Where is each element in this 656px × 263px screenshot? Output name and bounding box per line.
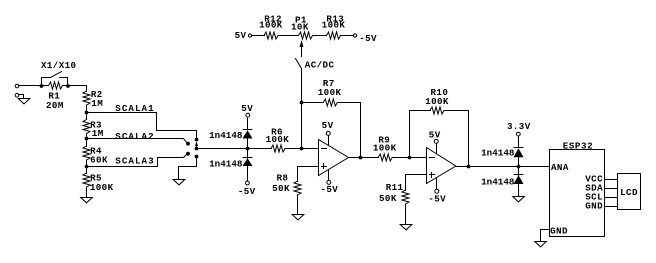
svg-text:100K: 100K — [259, 19, 283, 30]
svg-text:-5V: -5V — [238, 186, 256, 197]
svg-text:1n4148: 1n4148 — [209, 158, 243, 169]
svg-text:1n4148: 1n4148 — [209, 130, 243, 141]
svg-text:100K: 100K — [373, 142, 397, 153]
svg-text:-5V: -5V — [320, 184, 338, 195]
svg-text:R8: R8 — [276, 172, 288, 183]
svg-text:1M: 1M — [92, 128, 104, 139]
svg-text:20M: 20M — [46, 100, 64, 111]
svg-text:100K: 100K — [318, 87, 342, 98]
svg-text:100K: 100K — [90, 182, 114, 193]
svg-text:100K: 100K — [266, 134, 290, 145]
svg-text:100K: 100K — [425, 96, 449, 107]
svg-text:5V: 5V — [322, 120, 334, 131]
svg-text:50K: 50K — [379, 193, 397, 204]
svg-text:5V: 5V — [241, 103, 253, 114]
svg-text:-5V: -5V — [428, 194, 446, 205]
svg-text:50K: 50K — [272, 183, 290, 194]
svg-text:3.3V: 3.3V — [507, 121, 531, 132]
svg-text:1n4148: 1n4148 — [481, 147, 515, 158]
svg-text:AC/DC: AC/DC — [305, 59, 335, 70]
svg-text:ESP32: ESP32 — [563, 140, 594, 151]
svg-text:1n4148: 1n4148 — [481, 176, 515, 187]
svg-text:GND: GND — [550, 225, 568, 236]
svg-text:R11: R11 — [386, 182, 404, 193]
svg-text:SCALA3: SCALA3 — [115, 156, 154, 167]
svg-text:5V: 5V — [235, 30, 247, 41]
svg-text:5V: 5V — [429, 130, 441, 141]
svg-text:LCD: LCD — [620, 187, 638, 198]
svg-text:X1/X10: X1/X10 — [41, 60, 76, 71]
svg-text:GND: GND — [585, 201, 603, 212]
svg-text:60K: 60K — [90, 155, 108, 166]
svg-text:ANA: ANA — [551, 162, 569, 173]
svg-text:-5V: -5V — [359, 33, 377, 44]
svg-text:SCALA2: SCALA2 — [115, 131, 154, 142]
svg-text:1M: 1M — [91, 98, 103, 109]
svg-text:100K: 100K — [322, 19, 346, 30]
svg-text:10K: 10K — [291, 21, 309, 32]
